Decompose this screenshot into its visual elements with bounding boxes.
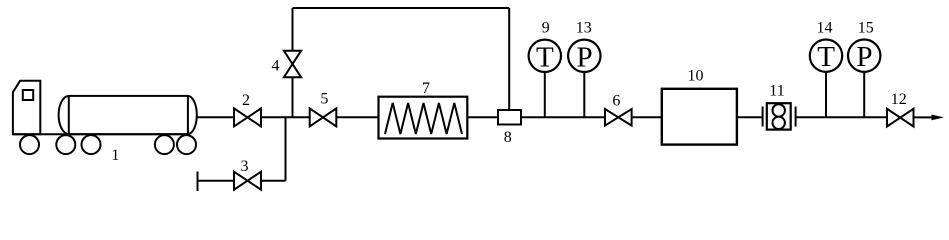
svg-text:10: 10 — [688, 68, 704, 85]
wheel 1 — [20, 135, 39, 154]
cab window — [23, 90, 33, 100]
gauge 9 stem — [544, 72, 546, 117]
pipe tank to valve 2 — [196, 116, 234, 118]
outlet pipe — [914, 116, 935, 118]
vessel 10 — [662, 89, 737, 145]
svg-text:T: T — [817, 41, 835, 73]
gauge 13 circle — [568, 40, 600, 72]
branch riser down — [285, 117, 287, 180]
wheel 2 — [56, 135, 75, 154]
heat exchanger coil — [385, 103, 462, 134]
valve 5 — [310, 108, 337, 126]
svg-text:P: P — [856, 41, 872, 73]
bypass top pipe — [293, 7, 510, 9]
meter 11 top rotor — [773, 104, 785, 116]
gauge 13 stem — [583, 72, 585, 117]
meter 11 bottom rotor — [773, 117, 785, 129]
pipe box 8 to valve 6 — [521, 116, 605, 118]
heat exchanger 7 box — [379, 97, 468, 139]
pipe valve 6 to vessel 10 — [632, 116, 662, 118]
gauge 15 circle — [848, 40, 880, 72]
bypass riser upper — [292, 8, 294, 51]
svg-text:9: 9 — [542, 20, 550, 37]
wheel 3 — [82, 135, 101, 154]
branch pipe right — [261, 180, 286, 182]
svg-text:T: T — [536, 41, 554, 73]
svg-text:1: 1 — [111, 147, 119, 164]
svg-text:3: 3 — [241, 158, 249, 175]
meter 11 body — [767, 103, 791, 129]
valve 2 — [234, 108, 261, 126]
meter 11 right flange — [795, 107, 797, 127]
branch end cap — [197, 172, 199, 192]
pipe meter 11 to valve 12 — [796, 116, 887, 118]
tank left head — [59, 96, 69, 134]
svg-text:5: 5 — [320, 91, 328, 108]
svg-text:7: 7 — [422, 80, 430, 97]
svg-text:14: 14 — [817, 19, 833, 36]
gauge 14 circle — [810, 40, 842, 72]
gauge 14 stem — [825, 72, 827, 117]
branch pipe left — [198, 180, 235, 182]
valve 3 — [234, 172, 261, 190]
outlet arrow — [932, 115, 945, 121]
svg-text:2: 2 — [242, 92, 250, 109]
valve 12 — [887, 109, 914, 127]
svg-text:6: 6 — [612, 93, 620, 110]
wheel 4 — [155, 135, 174, 154]
svg-text:13: 13 — [576, 20, 592, 37]
svg-text:4: 4 — [272, 57, 280, 74]
valve 6 — [605, 109, 632, 126]
gauge 9 circle — [529, 40, 561, 72]
svg-text:11: 11 — [769, 82, 784, 99]
pipe vessel 10 to meter 11 — [737, 116, 763, 118]
tank body 1 — [69, 96, 188, 134]
svg-text:P: P — [577, 41, 593, 73]
bypass drop pipe — [508, 8, 510, 110]
wheel 5 — [177, 135, 196, 154]
svg-text:12: 12 — [891, 91, 907, 108]
meter 11 left flange — [762, 107, 764, 127]
svg-text:8: 8 — [504, 129, 512, 146]
box 8 — [498, 110, 521, 125]
valve 4 — [284, 51, 301, 78]
truck cab — [13, 81, 40, 134]
svg-text:15: 15 — [858, 19, 874, 36]
gauge 15 stem — [863, 72, 865, 117]
bypass riser lower — [292, 77, 294, 117]
pipe heat exchanger to box 8 — [467, 116, 498, 118]
chassis line — [13, 133, 188, 135]
pipe valve 5 to heat exchanger — [336, 116, 378, 118]
pipe valve 2 to valve 5 — [261, 116, 310, 118]
tank right head — [188, 96, 197, 134]
